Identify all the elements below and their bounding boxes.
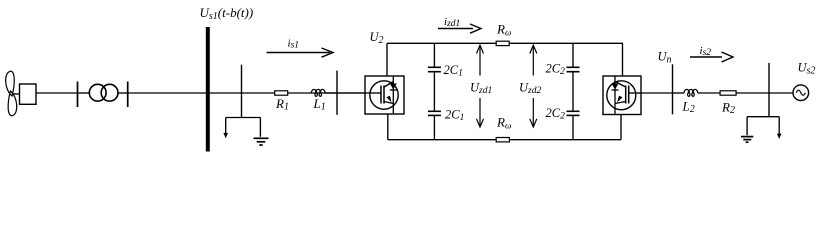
diode leg of converter 2 bbox=[614, 76, 616, 115]
arrow to earth (filled) bbox=[777, 134, 782, 139]
ground bbox=[254, 138, 269, 145]
diode D1 bbox=[390, 84, 397, 90]
wire L2 to R2 bbox=[698, 92, 720, 94]
transistor (IGBT) of converter 2 bbox=[615, 82, 629, 104]
wire tick to transformer bbox=[78, 92, 90, 94]
arrow to earth (filled) bbox=[223, 133, 228, 138]
converter U2 box bbox=[365, 76, 404, 114]
bus bar Us1 bbox=[206, 27, 210, 152]
bus tick bbox=[77, 82, 79, 108]
voltage arrow Uzd1 up bbox=[477, 45, 484, 75]
voltage arrow Uzd2 up bbox=[530, 45, 537, 75]
wire drop to ground bbox=[259, 118, 261, 137]
wire converter bottom to dc rail bbox=[387, 114, 389, 140]
voltage arrow Uzd1 down bbox=[477, 98, 484, 127]
capacitor 2C1 bottom bbox=[428, 111, 441, 115]
wire gate lead bbox=[365, 92, 381, 94]
ac source Us2 bbox=[793, 85, 809, 101]
wire tick to source bbox=[769, 92, 793, 94]
current arrow is1 bbox=[267, 48, 334, 57]
capacitor 2C2 bottom bbox=[567, 111, 580, 115]
node tick with ground branch bbox=[768, 63, 770, 117]
bus tick bbox=[127, 82, 129, 108]
resistor Rw top bbox=[496, 41, 509, 45]
wire dc rail top to converter 2 bbox=[622, 43, 624, 76]
wire drop to arrow bbox=[778, 117, 780, 134]
diode leg of converter U2 bbox=[392, 76, 394, 114]
capacitor branch right bbox=[572, 43, 574, 139]
wire R2 to grid tick bbox=[736, 92, 769, 94]
wire gate lead converter 2 bbox=[629, 92, 641, 94]
transformer T1 bbox=[89, 84, 118, 101]
wire to main bus bar bbox=[128, 92, 206, 94]
bus tick bbox=[336, 71, 338, 115]
wire generator to bus tick bbox=[36, 92, 78, 94]
node tick with ground branch bbox=[241, 65, 243, 118]
converter U2 circle bbox=[370, 81, 398, 109]
resistor R2 bbox=[720, 91, 736, 95]
capacitor 2C2 top bbox=[567, 67, 580, 71]
wire converter 2 to Un tick bbox=[641, 92, 673, 94]
wire hub to generator box bbox=[12, 93, 20, 95]
current arrow is2 bbox=[690, 52, 733, 62]
wire dc rail bottom to converter 2 bbox=[620, 115, 622, 140]
inductor L2 bbox=[684, 89, 698, 96]
wire converter top to dc rail bbox=[386, 43, 388, 76]
wire transformer to bus tick bbox=[118, 92, 128, 94]
inductor L1 bbox=[311, 89, 325, 96]
diode D2 bbox=[612, 84, 619, 90]
dc rail top bbox=[387, 42, 623, 44]
resistor Rw bottom bbox=[496, 138, 509, 142]
current arrow izd1 bbox=[438, 24, 481, 33]
voltage arrow Uzd2 down bbox=[530, 98, 537, 127]
wind turbine generator box bbox=[20, 84, 37, 104]
dc rail bottom bbox=[388, 139, 621, 141]
svg-text:Us1(t-b(t)): Us1(t-b(t)) bbox=[200, 5, 254, 22]
wire ground collector bar bbox=[226, 117, 261, 119]
wire drop to ground bbox=[746, 117, 748, 136]
converter 2 circle bbox=[607, 81, 636, 110]
wire to converter tick bbox=[325, 92, 337, 94]
capacitor branch left bbox=[433, 43, 435, 139]
transistor (IGBT) of converter U2 bbox=[381, 82, 393, 104]
wire tick to converter bbox=[337, 92, 365, 94]
wire drop to arrow bbox=[225, 118, 227, 134]
converter 2 box bbox=[603, 76, 641, 115]
wire tick to L2 bbox=[673, 92, 685, 94]
capacitor 2C1 top bbox=[428, 67, 441, 71]
wire ground collector bar bbox=[747, 116, 779, 118]
ground bbox=[741, 137, 753, 143]
resistor R1 bbox=[275, 91, 288, 95]
wire bus bar to converter bbox=[210, 92, 365, 94]
wind turbine blades bbox=[6, 71, 17, 115]
node tick Un bbox=[672, 64, 674, 114]
